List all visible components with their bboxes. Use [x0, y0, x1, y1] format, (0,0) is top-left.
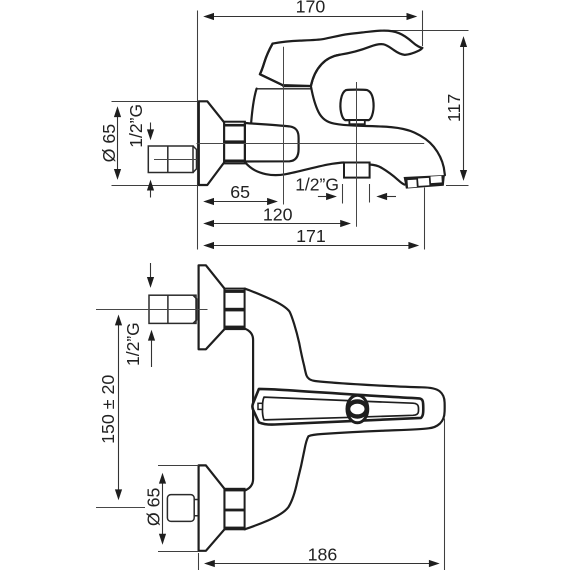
- svg-text:1/2”G: 1/2”G: [123, 322, 143, 366]
- top nipple centerline (plan view): [96, 309, 208, 311]
- body underside (side view): [245, 163, 344, 176]
- svg-text:150 ± 20: 150 ± 20: [98, 375, 118, 444]
- svg-text:117: 117: [444, 94, 464, 122]
- svg-text:Ø 65: Ø 65: [99, 124, 119, 163]
- lever left edge (side view): [260, 44, 283, 86]
- shower hose outlet (side view): [344, 163, 370, 178]
- top supply nipple (plan view): [149, 295, 197, 323]
- spout top edge (side view): [311, 86, 445, 175]
- extension line right of 170: [422, 11, 424, 47]
- extension line bottom of diameter 65 (side view): [112, 185, 199, 187]
- dimension 170 left arrow: [203, 13, 214, 20]
- body top edge (side view): [257, 88, 311, 90]
- diverter knob ring outer rim (plan view): [347, 395, 368, 423]
- svg-text:Ø 65: Ø 65: [144, 488, 164, 527]
- outlet left pointer arrow: [318, 196, 326, 198]
- svg-text:1/2”G: 1/2”G: [295, 174, 339, 194]
- wall escutcheon flange (side view): [199, 101, 224, 185]
- lever inner face line (plan view): [262, 397, 418, 420]
- half inch up arrow (plan view): [148, 330, 155, 341]
- extension line bottom of 117: [446, 185, 469, 187]
- extension line top of 117: [391, 30, 469, 32]
- svg-text:1/2”G: 1/2”G: [126, 104, 146, 148]
- bottom supply nipple (plan view): [167, 495, 198, 522]
- dimension 117 down arrow: [460, 170, 467, 181]
- half inch up arrow (side view): [147, 180, 154, 191]
- svg-text:120: 120: [263, 204, 293, 224]
- knob axis centerline (side view): [356, 82, 358, 227]
- diverter knob ring inner rim (plan view): [348, 402, 367, 417]
- outlet extension line right: [369, 184, 371, 203]
- dimension diameter 65 up arrow (side view): [114, 106, 121, 117]
- extension line right of 171: [424, 188, 426, 250]
- wall line (side view): [197, 11, 199, 250]
- svg-text:65: 65: [230, 182, 250, 202]
- spout underside toward tip (side view): [370, 165, 405, 185]
- half inch down arrow (side view): [150, 123, 152, 131]
- outlet right pointer arrow: [376, 193, 387, 200]
- dimension diameter 65 line (side view): [117, 116, 119, 170]
- lever tip notch (plan view): [258, 403, 263, 409]
- joint bar between lever and body (side view): [283, 85, 311, 87]
- aerator band at spout tip (side view): [404, 175, 445, 189]
- extension line bottom of diameter 65 (plan view): [158, 551, 199, 553]
- body outline (plan view): [245, 289, 445, 530]
- dimension diameter 65 line (plan view): [162, 483, 164, 535]
- bottom escutcheon flange (plan view): [199, 465, 225, 550]
- lever handle (plan view): [252, 389, 423, 425]
- dimension 65 line: [214, 201, 268, 203]
- svg-text:171: 171: [296, 226, 326, 246]
- supply nipple (side view): [148, 146, 196, 173]
- outlet extension line left: [342, 184, 344, 204]
- half inch down arrow (plan view): [150, 263, 152, 277]
- top connection nut (plan view): [225, 289, 245, 330]
- extension line top of diameter 65 (plan view): [158, 465, 199, 467]
- knob collar (side view): [349, 120, 364, 124]
- svg-text:186: 186: [308, 544, 338, 564]
- dimension 117 up arrow: [460, 36, 467, 47]
- dimension 120 line: [214, 223, 341, 225]
- svg-text:170: 170: [296, 0, 326, 17]
- bottom nipple centerline (plan view): [96, 507, 145, 509]
- diverter knob (side view): [340, 90, 373, 120]
- dimension 117 line: [463, 46, 465, 171]
- dimension 170 right arrow: [407, 13, 418, 20]
- bottom connection nut (plan view): [225, 489, 245, 530]
- dimension 150 plus-minus 20 line: [118, 325, 120, 491]
- threaded connection nut (side view): [224, 122, 245, 164]
- dimension diameter 65 down arrow (side view): [114, 169, 121, 180]
- top escutcheon flange (plan view): [199, 265, 225, 349]
- nipple centerline (side view): [154, 159, 197, 161]
- dimension 171 line: [214, 245, 409, 247]
- lever handle (side view): [260, 31, 423, 86]
- cartridge body left edge (side view): [251, 89, 256, 123]
- valve body cone (side view): [245, 123, 299, 162]
- dimension 186: [198, 553, 200, 570]
- spout shoulder and lever underside (side view): [311, 55, 340, 86]
- column between valve bodies (plan view): [244, 328, 253, 490]
- faucet axis centerline (side view): [197, 143, 425, 145]
- extension line top of diameter 65 (side view): [112, 101, 199, 103]
- dimension 170 line: [213, 16, 408, 18]
- cartridge axis centerline (side view): [283, 47, 285, 205]
